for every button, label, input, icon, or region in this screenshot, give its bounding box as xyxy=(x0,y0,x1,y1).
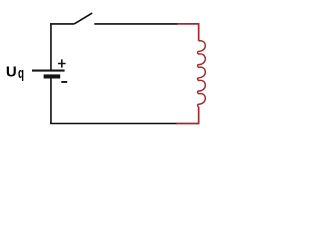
svg-text:q: q xyxy=(18,65,24,81)
wire: red top segment into inductor xyxy=(177,24,198,41)
label: plus sign at positive terminal xyxy=(58,59,66,67)
wire: top horizontal from switch throw to the right (black part) xyxy=(94,23,177,25)
wire: red vertical below inductor and red bottom segment xyxy=(176,107,198,124)
svg-text:U: U xyxy=(6,63,17,80)
switch S1 open blade xyxy=(74,13,92,24)
wire: left vertical from top wire down to battery + plate xyxy=(50,23,52,70)
wire: top horizontal from battery positive to switch pole xyxy=(50,23,74,25)
label: minus sign at negative terminal xyxy=(61,81,67,83)
wire: bottom horizontal (black part) xyxy=(50,123,177,125)
battery source Uq: long thin positive plate xyxy=(32,70,65,72)
battery source Uq: short thick negative plate xyxy=(44,74,61,78)
wire: left vertical from battery - plate down to bottom wire xyxy=(50,78,52,123)
inductor L (red coil, 5 turns) xyxy=(198,41,206,107)
